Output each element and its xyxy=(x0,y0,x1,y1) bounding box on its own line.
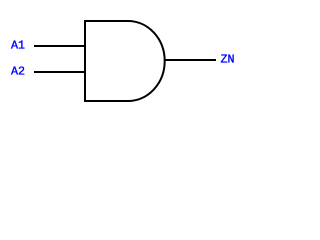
svg-text:A2: A2 xyxy=(11,65,25,79)
wire input A1 xyxy=(34,45,85,47)
svg-text:A1: A1 xyxy=(11,39,25,53)
and-gate U1 body xyxy=(85,21,165,101)
wire input A2 xyxy=(34,71,85,73)
wire output ZN xyxy=(164,59,216,61)
svg-text:ZN: ZN xyxy=(221,53,235,67)
